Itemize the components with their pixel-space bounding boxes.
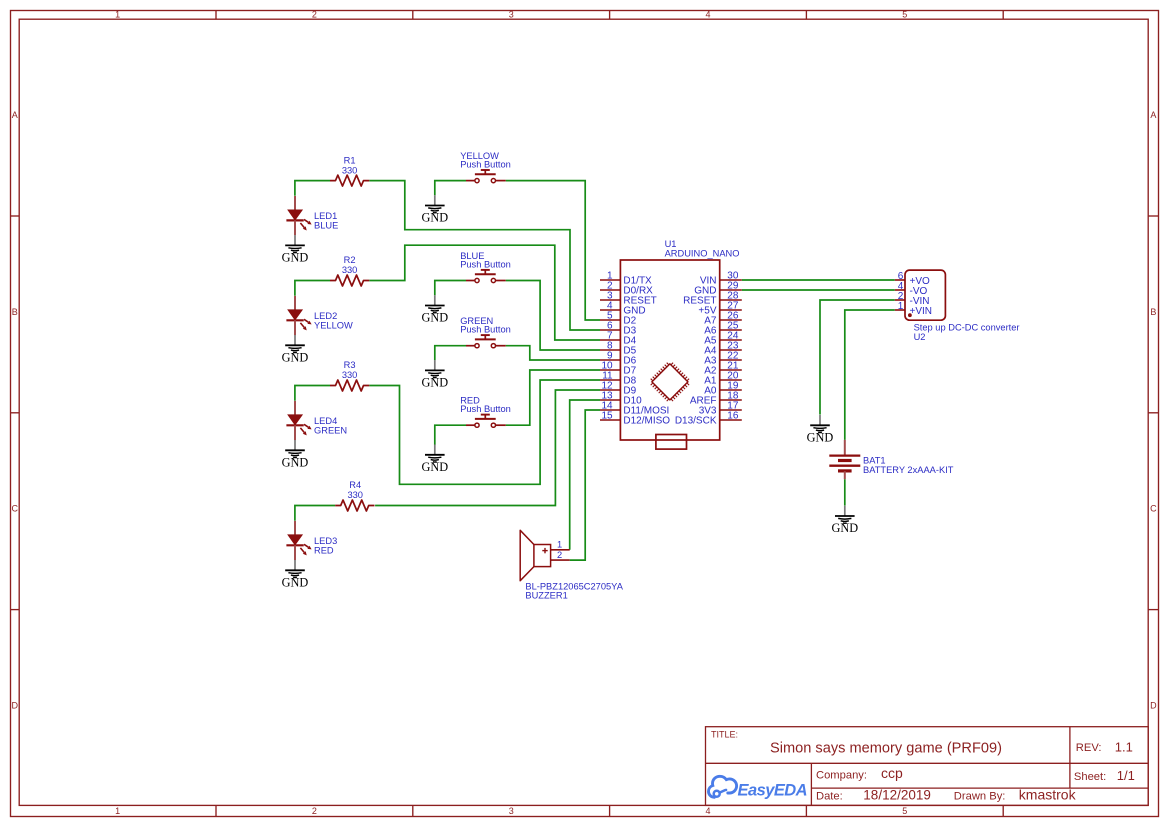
svg-text:BLUE: BLUE (314, 221, 338, 231)
U1 pin 21 A2 (704, 360, 742, 376)
battery BAT1 (829, 440, 953, 479)
svg-text:2: 2 (557, 550, 562, 560)
ground LED2 cathode (282, 335, 309, 365)
svg-text:ARDUINO_NANO: ARDUINO_NANO (665, 249, 740, 259)
svg-text:D: D (1150, 700, 1157, 710)
svg-text:330: 330 (342, 165, 358, 175)
wire RED button to GND (435, 425, 466, 445)
wire R4 to U1 pin 12 D9 (375, 390, 600, 506)
U1 pin 3 RESET (600, 290, 657, 306)
U1 pin 8 D5 (600, 340, 637, 356)
ground U2 -VIN (807, 415, 834, 445)
svg-text:GND: GND (421, 376, 448, 390)
svg-text:REV:: REV: (1076, 742, 1102, 754)
ground battery negative (831, 506, 858, 536)
U2 pin 1 +VIN (895, 301, 932, 317)
svg-text:Push Button: Push Button (460, 404, 511, 414)
svg-text:D12/MISO: D12/MISO (623, 416, 670, 427)
wire U2 pin 1 +VIN to battery (845, 310, 895, 440)
svg-text:18/12/2019: 18/12/2019 (863, 788, 931, 803)
wire BLUE button to U1 pin 8 D5 (506, 281, 600, 351)
wire U1 VIN to U2 pin 6 +VO (742, 279, 895, 281)
svg-text:Push Button: Push Button (460, 325, 511, 335)
svg-text:TITLE:: TITLE: (711, 729, 738, 739)
svg-text:4: 4 (705, 10, 710, 20)
svg-text:2: 2 (312, 10, 317, 20)
svg-text:GND: GND (421, 211, 448, 225)
svg-text:kmastrok: kmastrok (1019, 787, 1077, 803)
resistor R2 (330, 255, 369, 286)
svg-text:R4: R4 (349, 480, 361, 490)
ground LED1 cathode (282, 235, 309, 265)
svg-text:RED: RED (314, 546, 334, 556)
svg-text:LED1: LED1 (314, 211, 337, 221)
svg-text:+VIN: +VIN (910, 306, 933, 317)
IC U1 ARDUINO_NANO (600, 239, 742, 449)
U1 pin 14 D11/MOSI (600, 400, 669, 416)
U1 pin 30 VIN (700, 270, 742, 286)
svg-text:D: D (12, 700, 19, 710)
U2 pin 6 +VO (895, 271, 930, 287)
svg-text:BATTERY 2xAAA-KIT: BATTERY 2xAAA-KIT (863, 465, 954, 475)
push button YELLOW (460, 151, 511, 183)
svg-text:Push Button: Push Button (460, 259, 511, 269)
U1 pin 16 D13/SCK (675, 410, 742, 426)
wire battery to GND (844, 479, 846, 505)
LED LED1 (286, 196, 338, 235)
wire BLUE button to GND (435, 281, 466, 296)
svg-text:GND: GND (421, 311, 448, 325)
svg-text:U2: U2 (914, 332, 926, 342)
U1 pin 2 D0/RX (600, 280, 653, 296)
resistor R3 (330, 360, 369, 391)
IC U2 step-up DC-DC converter (895, 270, 1020, 342)
ground LED4 cathode (282, 440, 309, 470)
U1 pin 4 GND (600, 300, 646, 316)
svg-text:3: 3 (509, 10, 514, 20)
U1 pin 6 D3 (600, 320, 637, 336)
svg-text:BUZZER1: BUZZER1 (525, 590, 567, 600)
wire U2 pin 2 -VIN to GND (820, 300, 895, 415)
U1 pin 10 D7 (600, 360, 637, 376)
buzzer BUZZER1 (520, 530, 624, 600)
svg-text:330: 330 (342, 370, 358, 380)
svg-text:1.1: 1.1 (1115, 740, 1133, 755)
svg-text:15: 15 (601, 410, 613, 421)
resistor R1 (330, 155, 369, 186)
ground LED3 cathode (282, 560, 309, 590)
wire U1 GND to U2 pin 4 -VO (742, 289, 895, 291)
U1 pin 17 3V3 (699, 400, 742, 416)
U1 pin 1 D1/TX (600, 270, 652, 286)
wire buzzer pin 2 to U1 pin 14 D11/MOSI (570, 410, 600, 560)
LED LED3 (286, 521, 337, 560)
svg-text:Date:: Date: (816, 791, 843, 803)
svg-text:EasyEDA: EasyEDA (738, 781, 808, 799)
svg-text:C: C (12, 504, 19, 514)
wire GREEN button to U1 pin 9 D6 (506, 346, 600, 360)
U2 pin 4 -VO (895, 281, 928, 297)
U2 pin 2 -VIN (895, 291, 930, 307)
svg-text:2: 2 (312, 806, 317, 816)
svg-text:ccp: ccp (881, 765, 903, 781)
svg-text:Step up DC-DC converter: Step up DC-DC converter (914, 323, 1020, 333)
U1 pin 9 D6 (600, 350, 637, 366)
U1 pin 29 GND (694, 280, 742, 296)
svg-text:GREEN: GREEN (314, 426, 347, 436)
title block (706, 727, 1149, 806)
U1 pin 7 D4 (600, 330, 637, 346)
buzzer pin 1 (551, 549, 570, 551)
U1 pin 22 A3 (704, 350, 742, 366)
svg-text:GND: GND (421, 460, 448, 474)
ground YELLOW button (421, 195, 448, 225)
svg-text:GND: GND (282, 456, 309, 470)
U1 pin 25 A6 (704, 320, 742, 336)
wire LED1 anode to R1 (295, 181, 330, 196)
svg-text:4: 4 (705, 806, 710, 816)
wire R1 to U1 pin 6 D3 (369, 181, 600, 330)
svg-text:1: 1 (557, 540, 562, 550)
push button RED (460, 396, 511, 428)
U1 pin 26 A7 (704, 310, 742, 326)
LED LED4 (286, 401, 347, 440)
wire R2 to U1 pin 7 D4 (369, 245, 600, 340)
push button GREEN (460, 316, 511, 348)
svg-text:B: B (12, 307, 18, 317)
svg-text:GND: GND (282, 251, 309, 265)
svg-text:GND: GND (282, 576, 309, 590)
U1 chip glyph (651, 363, 689, 401)
wire LED4 anode to R3 (295, 386, 330, 401)
svg-text:D13/SCK: D13/SCK (675, 416, 717, 427)
U1 pin 24 A5 (704, 330, 742, 346)
U1 USB connector (656, 435, 687, 450)
svg-text:5: 5 (902, 806, 907, 816)
U1 pin 28 RESET (683, 290, 742, 306)
svg-text:1: 1 (898, 301, 904, 312)
svg-text:Push Button: Push Button (460, 159, 511, 169)
svg-text:B: B (1150, 307, 1156, 317)
U1 pin 11 D8 (600, 370, 637, 386)
svg-text:GND: GND (807, 431, 834, 445)
svg-text:330: 330 (342, 265, 358, 275)
svg-text:1/1: 1/1 (1117, 768, 1135, 783)
svg-text:3: 3 (509, 806, 514, 816)
svg-text:C: C (1150, 504, 1157, 514)
svg-text:GND: GND (831, 521, 858, 535)
svg-text:GND: GND (282, 351, 309, 365)
push button BLUE (460, 251, 511, 283)
U1 pin 20 A1 (704, 370, 742, 386)
wire GREEN button to GND (435, 346, 466, 361)
svg-text:Drawn By:: Drawn By: (954, 791, 1006, 803)
svg-text:Simon says memory game (PRF09): Simon says memory game (PRF09) (770, 741, 1002, 757)
svg-text:R3: R3 (344, 360, 356, 370)
wire YELLOW button to GND (435, 181, 466, 196)
svg-text:1: 1 (115, 10, 120, 20)
U1 pin 19 A0 (704, 380, 742, 396)
svg-text:YELLOW: YELLOW (314, 321, 353, 331)
wire buzzer pin 1 to U1 pin 13 D10 (570, 400, 600, 550)
U1 pin 13 D10 (600, 390, 642, 406)
U1 pin 23 A4 (704, 340, 742, 356)
svg-text:16: 16 (727, 410, 739, 421)
svg-text:A: A (12, 110, 18, 120)
svg-text:LED2: LED2 (314, 311, 337, 321)
buzzer plus mark (542, 550, 547, 552)
ground BLUE button (421, 295, 448, 325)
svg-text:R1: R1 (344, 155, 356, 165)
svg-text:1: 1 (115, 806, 120, 816)
svg-text:A: A (1150, 110, 1156, 120)
U1 pin 5 D2 (600, 310, 637, 326)
U1 pin 15 D12/MISO (600, 410, 670, 426)
EasyEDA logo (709, 776, 808, 799)
svg-text:LED3: LED3 (314, 536, 337, 546)
U1 pin 27 +5V (698, 300, 741, 316)
wire YELLOW button to U1 pin 5 D2 (506, 181, 600, 320)
buzzer pin 2 (551, 559, 570, 561)
svg-text:330: 330 (347, 490, 363, 500)
U1 pin 12 D9 (600, 380, 637, 396)
svg-text:Sheet:: Sheet: (1074, 771, 1106, 783)
ground RED button (421, 445, 448, 475)
svg-text:5: 5 (902, 10, 907, 20)
resistor R4 (335, 480, 374, 511)
U1 pin 18 AREF (690, 390, 742, 406)
wire R3 to U1 pin 11 D8 (369, 380, 600, 484)
svg-text:Company:: Company: (816, 770, 867, 782)
svg-text:R2: R2 (344, 255, 356, 265)
wire LED3 anode to R4 (295, 506, 335, 521)
wire RED button to U1 pin 10 D7 (506, 370, 600, 425)
LED LED2 (286, 296, 353, 335)
svg-text:LED4: LED4 (314, 416, 337, 426)
wire LED2 anode to R2 (295, 281, 330, 296)
ground GREEN button (421, 360, 448, 390)
